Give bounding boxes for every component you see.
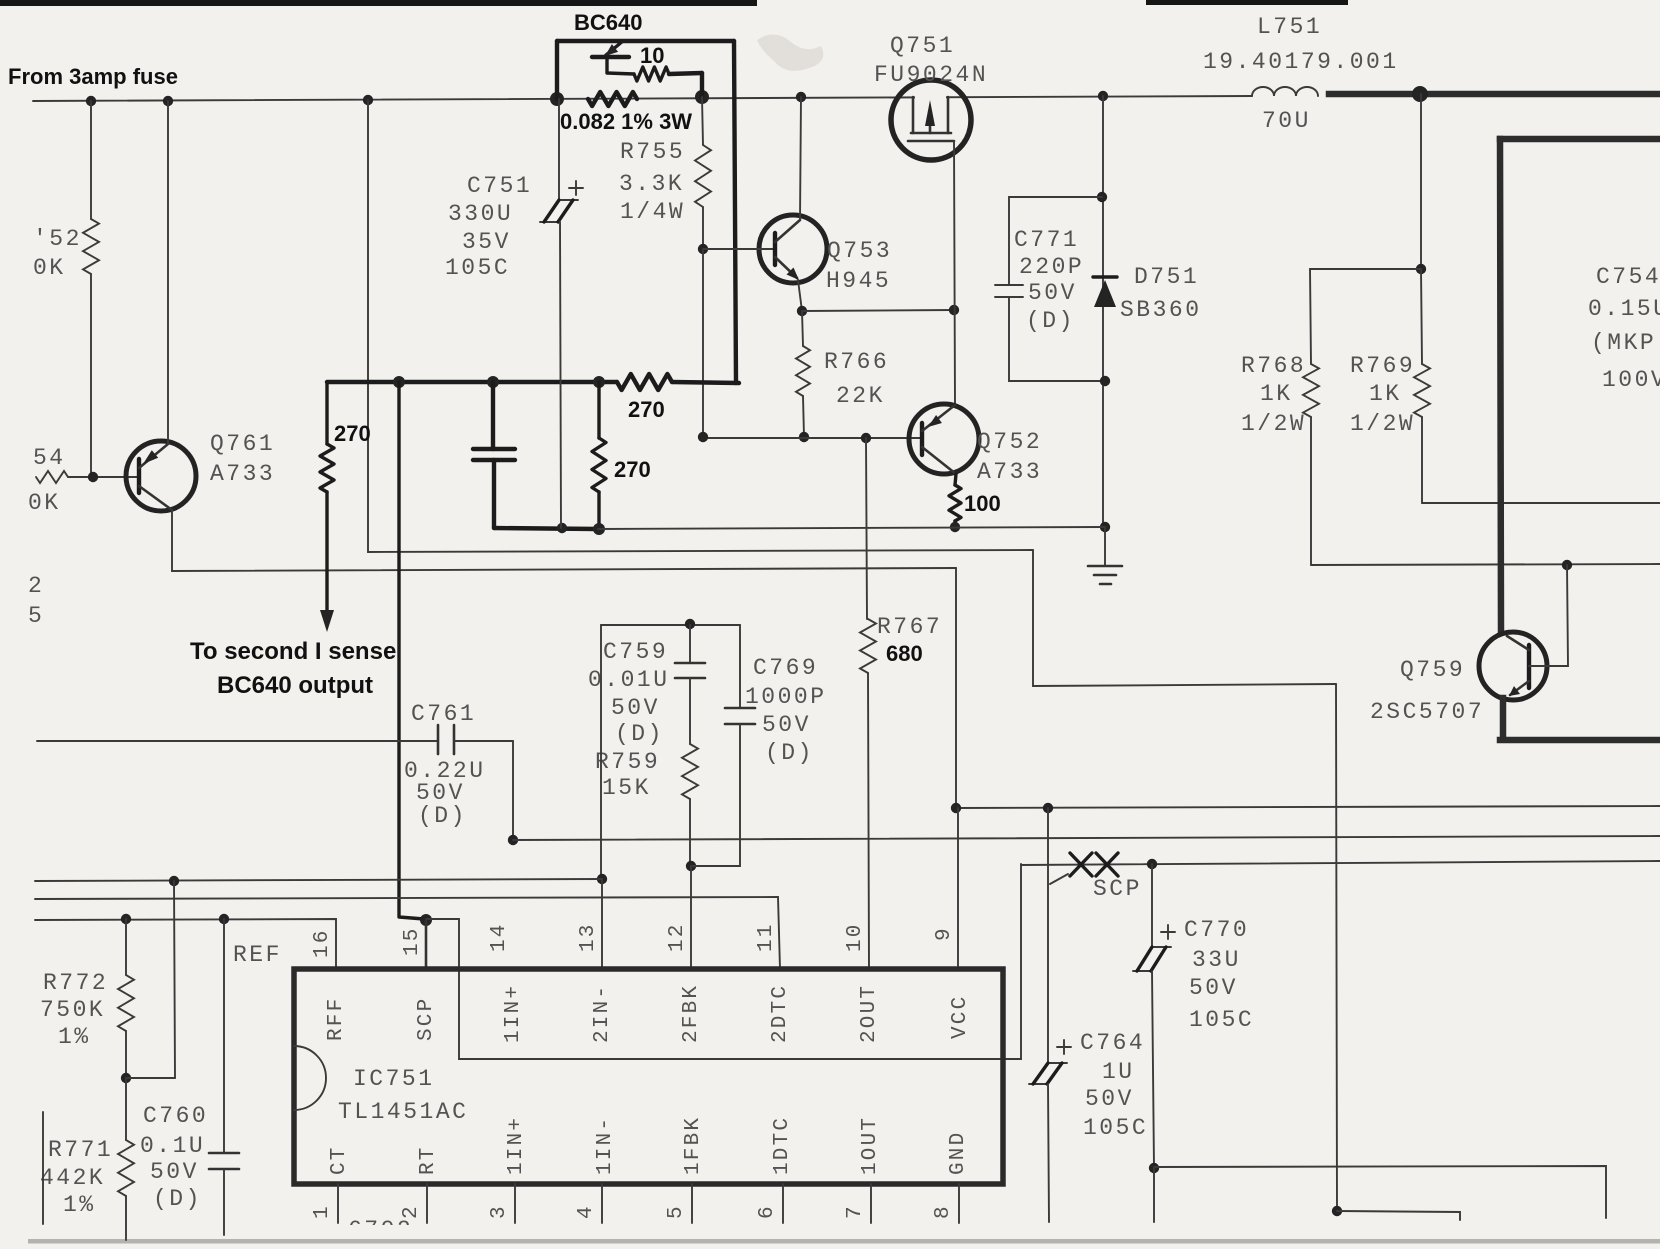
svg-text:1K: 1K — [1369, 381, 1402, 407]
svg-text:1IN+: 1IN+ — [505, 1116, 528, 1175]
svg-text:SCP: SCP — [1093, 876, 1142, 902]
junction R755 bottom / Q753 base — [698, 244, 708, 254]
svg-text:2IN-: 2IN- — [591, 984, 614, 1043]
IC751 pin 8 stub — [958, 1184, 960, 1223]
svg-text:1U: 1U — [1102, 1059, 1135, 1085]
scan artifact top black bar right — [1146, 0, 1348, 5]
resistor R771 442K 1% — [125, 1078, 127, 1140]
svg-text:(D): (D) — [1026, 308, 1075, 334]
svg-text:16: 16 — [311, 928, 334, 958]
wire x368 down from input rail — [368, 100, 1033, 552]
svg-text:C770: C770 — [1184, 917, 1249, 943]
capacitor C764 1U 50V 105C (+) — [1047, 808, 1049, 1063]
wire rail y808 VCC supply — [956, 806, 1660, 808]
junction rail y919 at R772 — [121, 914, 131, 924]
svg-text:5: 5 — [28, 603, 44, 629]
wire Q761 collector down and right (rail y571) — [172, 510, 956, 571]
transistor Q751 FU9024N (P-MOSFET) — [891, 80, 971, 160]
svg-text:2DTC: 2DTC — [769, 984, 792, 1043]
svg-text:1IN+: 1IN+ — [502, 984, 525, 1043]
wire node to x174 riser — [126, 1077, 175, 1079]
resistor R772 750K 1% — [125, 919, 127, 975]
IC751 pin 3 stub — [514, 1184, 516, 1223]
junction C759 top — [685, 619, 695, 629]
svg-text:100V: 100V — [1602, 367, 1660, 393]
junction rail y864 at C770 — [1147, 859, 1157, 869]
capacitor unlabeled (bold) at x494 — [473, 447, 515, 451]
capacitor C754 0.15U (MKP 100V) thick box — [1500, 136, 1660, 143]
junction on input rail at 0.082 right / R755 — [695, 90, 709, 104]
svg-text:10: 10 — [640, 43, 664, 68]
svg-text:R755: R755 — [620, 139, 685, 165]
svg-text:750K: 750K — [40, 997, 105, 1023]
svg-text:IC751: IC751 — [353, 1066, 435, 1092]
wire bold right side of BC640 loop x734 — [734, 41, 736, 383]
wire rail y919 REF to pin 16 — [35, 919, 336, 969]
svg-text:GND: GND — [947, 1131, 970, 1175]
svg-text:33U: 33U — [1192, 947, 1241, 973]
junction R766 bottom on base rail — [799, 432, 809, 442]
crossout tail — [1050, 874, 1068, 884]
svg-text:15: 15 — [401, 926, 424, 956]
wire R769 bottom rail y503 — [1422, 502, 1660, 504]
arrowhead to second I sense — [320, 610, 334, 632]
wire Q751 source down to Q752 — [954, 141, 955, 406]
svg-text:680: 680 — [886, 641, 923, 666]
svg-text:442K: 442K — [40, 1165, 105, 1191]
svg-text:100: 100 — [964, 491, 1001, 516]
svg-text:R769: R769 — [1350, 353, 1415, 379]
resistor 0.082 1% 3W in main rail (bold zigzag) — [588, 92, 637, 106]
wire R768 bottom rail y565 — [1311, 564, 1660, 565]
wire rail y880 — [35, 879, 602, 881]
resistor 10 (bypass) bold — [634, 67, 669, 81]
junction pin15 SCP — [420, 914, 432, 926]
capacitor C759 0.01U 50V (D) — [689, 625, 691, 663]
wire bold cap branch x493 — [491, 382, 495, 449]
svg-text:D751: D751 — [1134, 264, 1199, 290]
svg-text:105C: 105C — [445, 255, 510, 281]
svg-text:14: 14 — [488, 922, 511, 952]
junction rail y919 at C760 — [219, 914, 229, 924]
junction 100 bottom on rail y528 — [950, 522, 960, 532]
capacitor C771 220P 50V (D) — [1009, 197, 1102, 285]
wire rail y898 to pin 11 — [35, 897, 780, 969]
svg-text:2OUT: 2OUT — [858, 984, 881, 1043]
resistor R767 680 — [866, 438, 867, 619]
svg-text:(D): (D) — [765, 740, 814, 766]
wire bold arrow branch to second I sense — [325, 382, 328, 444]
svg-text:From 3amp fuse: From 3amp fuse — [8, 64, 178, 89]
svg-text:1%: 1% — [63, 1192, 96, 1218]
wire C770 bottom stub — [1153, 1168, 1155, 1222]
svg-text:330U: 330U — [448, 201, 513, 227]
scan artifact bottom gray band — [28, 1239, 1660, 1244]
junction C771 top — [1097, 192, 1107, 202]
svg-text:70U: 70U — [1262, 108, 1311, 134]
IC751 pin 2 stub — [426, 1184, 428, 1223]
svg-text:C754: C754 — [1596, 264, 1660, 290]
svg-text:0K: 0K — [33, 255, 66, 281]
svg-text:11: 11 — [755, 922, 778, 952]
junction on input rail at 0.082 left — [550, 92, 564, 106]
svg-text:50V: 50V — [1189, 975, 1238, 1001]
capacitor C761 0.22U 50V (D) — [437, 725, 440, 754]
transistor Q759 2SC5707 (NPN) — [1479, 632, 1547, 700]
wire pin 13 riser — [600, 625, 602, 879]
svg-text:35V: 35V — [462, 229, 511, 255]
svg-text:3.3K: 3.3K — [619, 171, 684, 197]
svg-text:50V: 50V — [762, 712, 811, 738]
junction Q759 base riser — [1562, 560, 1572, 570]
IC751 pin 7 stub — [870, 1184, 872, 1223]
wire bold sense rail y382 — [327, 380, 617, 384]
svg-text:13: 13 — [577, 922, 600, 952]
diode D751 SB360 — [1093, 275, 1117, 278]
svg-text:R759: R759 — [595, 749, 660, 775]
svg-text:105C: 105C — [1083, 1115, 1148, 1141]
svg-text:1/4W: 1/4W — [620, 199, 685, 225]
svg-text:R772: R772 — [43, 970, 108, 996]
svg-text:REF: REF — [233, 942, 282, 968]
svg-text:9: 9 — [933, 926, 956, 941]
svg-text:RT: RT — [417, 1145, 440, 1175]
crossout XX mark 2 — [1096, 853, 1118, 876]
resistor R768 1K 1/2W — [1310, 269, 1311, 364]
junction pin13 rail y879 — [597, 874, 607, 884]
wire pin 15 stub — [425, 920, 428, 969]
inductor L751 19.40179.001 70U — [1252, 87, 1318, 96]
svg-text:5: 5 — [665, 1204, 688, 1219]
junction R759/C769 bottom — [686, 861, 696, 871]
svg-text:RFF: RFF — [325, 997, 348, 1041]
svg-text:(MKP: (MKP — [1591, 330, 1656, 356]
junction R768/R769 top — [1416, 264, 1426, 274]
svg-text:TL1451AC: TL1451AC — [338, 1099, 468, 1125]
svg-text:1: 1 — [311, 1204, 334, 1219]
junction on input rail at D751 column — [1098, 91, 1108, 101]
svg-text:10: 10 — [844, 922, 867, 952]
svg-text:1%: 1% — [58, 1024, 91, 1050]
junction bold at rail y528 — [593, 523, 605, 535]
svg-text:50V: 50V — [1085, 1086, 1134, 1112]
svg-text:270: 270 — [334, 421, 371, 446]
svg-text:12: 12 — [666, 922, 689, 952]
IC751 pin 6 stub — [782, 1184, 784, 1223]
svg-text:105C: 105C — [1189, 1007, 1254, 1033]
svg-text:R771: R771 — [48, 1137, 113, 1163]
transistor Q752 A733 (PNP) — [909, 404, 979, 474]
wire bold bottom segment to x598 — [494, 528, 598, 529]
resistor 270 horizontal (bold) — [617, 374, 672, 390]
wire bold SCP riser x399 — [399, 382, 424, 919]
svg-text:2SC5707: 2SC5707 — [1370, 699, 1484, 725]
svg-text:0.082 1% 3W: 0.082 1% 3W — [560, 109, 692, 134]
wire emitter node to Q751 source line — [802, 310, 954, 311]
svg-text:22K: 22K — [836, 383, 885, 409]
svg-text:(D): (D) — [153, 1186, 202, 1212]
svg-text:R768: R768 — [1241, 353, 1306, 379]
junction rail y808 at C764 — [1043, 803, 1053, 813]
wire R767 to pin 10 — [868, 673, 869, 969]
svg-text:1DTC: 1DTC — [771, 1116, 794, 1175]
svg-text:H945: H945 — [826, 268, 891, 294]
capacitor C760 0.1U 50V (D) — [223, 919, 225, 1153]
wire pin 12 riser — [690, 866, 692, 969]
svg-text:C764: C764 — [1080, 1030, 1145, 1056]
svg-text:0.15U: 0.15U — [1588, 296, 1660, 322]
svg-text:C771: C771 — [1014, 227, 1079, 253]
crossout XX mark 1 — [1070, 853, 1092, 876]
resistor R769 1K 1/2W — [1421, 269, 1422, 364]
svg-text:1000P: 1000P — [745, 684, 827, 710]
resistor 100 at Q752 collector (bold) — [955, 474, 956, 485]
svg-text:CT: CT — [328, 1145, 351, 1175]
capacitor C770 33U 50V 105C (+) — [1151, 864, 1153, 947]
svg-text:BC640 output: BC640 output — [217, 672, 373, 699]
wire 10-ohm down to rail — [700, 73, 704, 97]
svg-text:Q751: Q751 — [890, 33, 955, 59]
wire C761 down to rail y840 — [512, 741, 514, 840]
junction blob on thick rail — [1412, 86, 1428, 102]
svg-text:VCC: VCC — [949, 995, 972, 1039]
junction on input rail at R752 — [86, 96, 96, 106]
wire bold riser x557 to BC640 — [555, 41, 559, 99]
svg-text:A733: A733 — [977, 459, 1042, 485]
svg-text:1OUT: 1OUT — [859, 1116, 882, 1175]
svg-text:6: 6 — [756, 1204, 779, 1219]
wire Q753 collector to input rail — [800, 97, 801, 220]
svg-text:R767: R767 — [877, 614, 942, 640]
wire D751 column x1103 — [1102, 96, 1104, 527]
svg-text:0.1U: 0.1U — [140, 1133, 205, 1159]
wire x1421 down to R768/R769 — [1420, 94, 1422, 269]
svg-text:2: 2 — [28, 573, 44, 599]
junction base rail at x703 — [698, 432, 708, 442]
svg-text:Q761: Q761 — [210, 431, 275, 457]
wire x174 riser to R772/R771 node — [174, 881, 175, 1078]
svg-text:15K: 15K — [602, 775, 651, 801]
svg-text:C769: C769 — [753, 655, 818, 681]
wire base rail to Q752 — [703, 437, 922, 439]
wire SCP net through IC to C770 rail — [426, 864, 1021, 1059]
wire R754 to Q761 base — [68, 476, 139, 478]
svg-text:C760: C760 — [143, 1103, 208, 1129]
wire bottom right stub — [1337, 1211, 1460, 1220]
IC751 pin 4 stub — [601, 1184, 603, 1223]
svg-text:FU9024N: FU9024N — [874, 62, 988, 88]
junction C751 bottom — [557, 523, 567, 533]
wire thick output rail — [1329, 91, 1660, 98]
scan artifact top black bar left — [0, 0, 757, 6]
junction Q753 emitter / R766 — [797, 306, 807, 316]
svg-text:Q752: Q752 — [977, 429, 1042, 455]
ground symbol — [1104, 527, 1106, 565]
svg-text:SCP: SCP — [415, 997, 438, 1041]
svg-text:3: 3 — [488, 1204, 511, 1219]
svg-text:220P: 220P — [1019, 254, 1084, 280]
svg-text:(D): (D) — [418, 803, 467, 829]
scan smudge near BC640 — [757, 34, 823, 70]
wire C761 input from left — [37, 740, 438, 742]
svg-text:270: 270 — [614, 457, 651, 482]
wire corner x1033 down and right (rail y686) — [1033, 550, 1336, 686]
svg-text:Q753: Q753 — [827, 238, 892, 264]
svg-text:R766: R766 — [824, 349, 889, 375]
svg-text:50V: 50V — [611, 695, 660, 721]
wire bold 270 branch x599 — [597, 382, 600, 438]
resistor R755 3.3K 1/4W — [702, 97, 703, 145]
junction on input rail x368 — [363, 95, 373, 105]
svg-text:C751: C751 — [467, 173, 532, 199]
wire fragment left edge — [42, 1112, 44, 1224]
svg-text:1/2W: 1/2W — [1350, 411, 1415, 437]
transistor BC640 (PNP, no circle) — [592, 55, 629, 59]
wire junction to R768 — [1310, 268, 1421, 270]
IC751 pin 1 stub — [337, 1184, 339, 1223]
svg-text:BC640: BC640 — [574, 10, 642, 35]
junction diamond x399 — [393, 376, 405, 388]
svg-text:54: 54 — [33, 445, 66, 471]
transistor Q753 H945 (NPN) — [759, 215, 827, 283]
svg-text:7: 7 — [844, 1204, 867, 1219]
wire x1336 down to bottom junction — [1336, 684, 1337, 1211]
wire top bar C759/C769 — [601, 624, 740, 626]
svg-text:Q759: Q759 — [1400, 657, 1465, 683]
svg-text:2FBK: 2FBK — [680, 984, 703, 1043]
svg-text:L751: L751 — [1257, 14, 1322, 40]
junction on input rail at Q753 collector — [796, 92, 806, 102]
capacitor C751 330U 35V 105C — [558, 99, 560, 200]
junction bottom right wire — [1332, 1206, 1342, 1216]
wire bold top of BC640 loop — [557, 39, 734, 43]
junction x599 — [593, 376, 605, 388]
svg-text:270: 270 — [628, 397, 665, 422]
junction D751 column on rail y528 — [1100, 522, 1110, 532]
svg-text:To second I sense: To second I sense — [190, 638, 396, 665]
resistor 270 vertical left (bold) — [320, 444, 334, 492]
svg-text:C759: C759 — [603, 639, 668, 665]
wire pin 9 riser — [957, 808, 959, 966]
junction C771 bottom — [1100, 376, 1110, 386]
IC751 TL1451AC body — [294, 969, 1003, 1184]
svg-text:50V: 50V — [1028, 280, 1077, 306]
junction source line — [949, 305, 959, 315]
capacitor C769 1000P 50V (D) — [739, 625, 741, 708]
svg-text:1FBK: 1FBK — [682, 1116, 705, 1175]
junction rail y880 at x174 — [169, 876, 179, 886]
wire Q753 emitter down to node — [798, 280, 802, 311]
wire thick Q759 emitter to output — [1500, 698, 1507, 737]
wire bottom rail y1167 — [1154, 1166, 1606, 1218]
svg-text:'52: '52 — [33, 226, 82, 252]
junction pin14 rail — [508, 835, 518, 845]
junction node base wire Q761 — [88, 472, 98, 482]
resistor 270 vertical right (bold) — [592, 438, 606, 492]
junction R772/R771 — [121, 1073, 131, 1083]
svg-text:8: 8 — [932, 1204, 955, 1219]
junction on input rail at Q761 emitter — [163, 96, 173, 106]
wire rail y840 (pin 14 / 1IN+) — [513, 836, 1660, 840]
wire rail y571 corner down to VCC junction — [955, 568, 957, 808]
junction base rail at R767 — [861, 433, 871, 443]
junction rail y808 corner — [951, 803, 961, 813]
wire Q759 base riser — [1529, 565, 1568, 666]
svg-text:A733: A733 — [210, 461, 275, 487]
svg-text:0K: 0K — [28, 490, 61, 516]
svg-text:4: 4 — [575, 1204, 598, 1219]
wire junction down to Q752 base rail — [702, 249, 704, 438]
wire rail y528 to ground column — [598, 527, 1105, 529]
svg-text:(D): (D) — [615, 721, 664, 747]
node main input rail from 3amp fuse — [33, 96, 1252, 101]
svg-text:1/2W: 1/2W — [1241, 411, 1306, 437]
svg-text:1K: 1K — [1260, 381, 1293, 407]
svg-text:19.40179.001: 19.40179.001 — [1203, 49, 1399, 75]
svg-text:1IN-: 1IN- — [594, 1116, 617, 1175]
IC751 pin 5 stub — [691, 1184, 693, 1223]
svg-text:C761: C761 — [411, 701, 476, 727]
svg-text:50V: 50V — [150, 1159, 199, 1185]
transistor Q761 A733 (PNP) — [126, 441, 196, 511]
resistor R759 15K — [682, 744, 698, 799]
wire rail y864 SCP (crossed out) — [1021, 861, 1660, 865]
junction C770 bottom — [1149, 1163, 1159, 1173]
svg-text:SB360: SB360 — [1120, 297, 1202, 323]
wire Q761 emitter up to input rail — [167, 101, 169, 444]
junction x493 — [487, 376, 499, 388]
resistor R766 22K — [802, 311, 803, 346]
resistor R752 (750K, partially visible labels) — [90, 101, 92, 219]
